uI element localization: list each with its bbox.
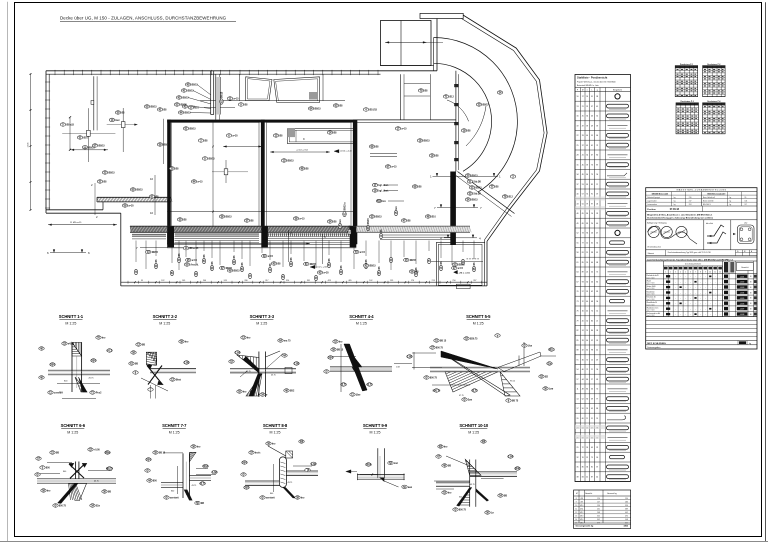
stair parallelogram 1 [246,77,272,101]
svg-text:64: 64 [577,272,579,274]
svg-text:59: 59 [596,125,598,127]
svg-text:63: 63 [596,379,598,381]
plan bottom edge [121,281,487,283]
svg-text:65: 65 [586,350,588,352]
svg-text:22: 22 [577,135,579,137]
svg-text:194: 194 [597,505,600,507]
roof protrusion rectangle [381,21,432,66]
svg-text:Ø10/15: Ø10/15 [369,110,377,112]
svg-text:Beton C25/30: Beton C25/30 [703,199,713,202]
svg-text:15: 15 [586,252,588,254]
svg-text:Wandecke innen: Wandecke innen [647,308,659,310]
svg-text:+75 = -1.15: +75 = -1.15 [459,272,471,274]
svg-text:85: 85 [577,340,579,342]
svg-text:Stb.Ø8: Stb.Ø8 [473,181,481,184]
svg-text:Durchstanzbewehrung Typ SDX ge: Durchstanzbewehrung Typ SDX gem. abZ Z-1… [668,251,711,254]
svg-text:a=15: a=15 [299,219,305,221]
svg-text:33: 33 [582,135,584,137]
schnitt 2-2 detail [150,367,196,369]
svg-text:a=20: a=20 [323,273,329,275]
svg-text:29: 29 [582,125,584,127]
hatch band upper-left wall [97,196,171,198]
svg-text:Durchstanzelement: Durchstanzelement [685,263,702,266]
svg-text:106: 106 [745,200,748,202]
svg-text:79: 79 [591,174,593,176]
svg-text:-0008: -0008 [740,314,745,316]
svg-text:200A: 200A [366,464,372,467]
svg-text:Bew.-Gehalt m3: Bew.-Gehalt m3 [703,196,715,199]
svg-text:800: 800 [459,497,462,499]
svg-text:Gewicht: Gewicht [741,266,749,269]
svg-text:13: 13 [577,106,579,108]
svg-text:94: 94 [596,174,598,176]
svg-text:20: 20 [586,262,588,264]
svg-text:97: 97 [582,291,584,293]
svg-text:442: 442 [625,512,628,514]
hatch band grey fill [130,226,356,232]
tags room2 [273,134,278,137]
svg-text:800 75: 800 75 [430,378,438,380]
svg-text:73: 73 [577,301,579,303]
svg-text:Verschiebeachse: Verschiebeachse [647,247,661,249]
room2 arrow dim [270,151,330,153]
svg-text:Durchstanz P-4: Durchstanz P-4 [707,100,720,103]
svg-text:217: 217 [689,200,692,202]
svg-text:34: 34 [577,174,579,176]
svg-text:213: 213 [432,280,435,282]
svg-text:-0004: -0004 [740,293,745,295]
svg-text:Biegeform: Biegeform [613,89,622,91]
schnitt 9-9 detail [377,448,379,478]
svg-text:+2.44 +2.64: +2.44 +2.64 [296,150,308,152]
short hline upper rooms [204,107,235,109]
svg-text:169: 169 [182,280,185,282]
svg-text:10: 10 [577,96,579,98]
svg-text:kro: kro [185,342,189,344]
svg-text:61: 61 [582,203,584,205]
svg-text:102: 102 [369,280,372,282]
outer boundary right octagonal edge [463,15,547,241]
svg-text:Typ 7 / SDX: Typ 7 / SDX [647,310,655,312]
svg-text:210: 210 [689,197,692,199]
svg-text:M 1:25: M 1:25 [270,431,281,435]
svg-text:Ø: Ø [55,505,57,508]
svg-text:16: 16 [582,311,584,313]
svg-text:43.75: 43.75 [471,390,478,393]
big curved slab edge arc inner [434,63,492,171]
room inner edge lines [171,123,173,243]
title block position row [646,205,757,207]
svg-text:55: 55 [577,242,579,244]
svg-text:27: 27 [591,379,593,381]
svg-text:97: 97 [591,203,593,205]
svg-text:Lkø: Lkø [528,346,533,348]
svg-text:a=15: a=15 [233,99,239,101]
section marker 3 vertical [288,230,290,262]
schnitt 4-4 detail [330,366,392,368]
wall ticks top right section [239,70,241,75]
svg-text:80: 80 [596,155,598,157]
tags bottom rows additional [184,263,189,266]
svg-text:800 75: 800 75 [59,506,67,508]
svg-text:Ø8 15: Ø8 15 [337,350,344,352]
svg-text:Projekt: Wohnhaus - Decke über: Projekt: Wohnhaus - Decke über UG / B25 … [577,81,616,84]
svg-text:37: 37 [582,145,584,147]
window mullion ticks on wall x456 [454,84,458,87]
svg-text:45: 45 [591,408,593,410]
left rooms boundary hline pair [370,153,397,155]
svg-text:25: 25 [582,116,584,118]
svg-text:11 Ø8 a=15: 11 Ø8 a=15 [70,222,82,224]
svg-text:28: 28 [582,340,584,342]
svg-text:Datenangaben: Datenangaben [647,346,660,349]
svg-text:44: 44 [586,135,588,137]
svg-text:231: 231 [597,508,600,510]
svg-text:91: 91 [591,194,593,196]
svg-text:Ø12: Ø12 [449,97,454,99]
svg-text:a=15: a=15 [391,167,397,169]
svg-text:Ø8/15: Ø8/15 [150,107,157,109]
svg-text:Ø10: Ø10 [580,505,583,507]
svg-text:Betonstahl Ø8-Ø14 n. Liste: Betonstahl Ø8-Ø14 n. Liste [577,84,599,87]
room top inner hlines [172,121,260,123]
svg-text:Ø: Ø [464,399,466,402]
leader line x163 [162,119,164,164]
svg-text:Ø8 75: Ø8 75 [512,401,519,403]
svg-text:±0.00 =+2.44: ±0.00 =+2.44 [340,151,353,153]
svg-text:69: 69 [586,184,588,186]
svg-text:1.64: 1.64 [508,456,513,459]
svg-text:29: 29 [586,106,588,108]
schnitt 3-3 detail [258,352,260,398]
svg-text:95: 95 [745,197,747,199]
svg-text:Ø: Ø [37,474,39,477]
svg-text:kro: kro [396,205,398,209]
svg-text:50: 50 [591,272,593,274]
svg-text:Ø8: Ø8 [581,498,583,500]
svg-text:504: 504 [146,459,151,462]
svg-text:10: 10 [586,242,588,244]
inner diagonal wall to lower corner [458,172,515,214]
svg-text:kro: kro [272,444,276,446]
svg-text:10: 10 [575,505,577,507]
svg-text:91: 91 [577,359,579,361]
svg-text:68: 68 [596,262,598,264]
svg-text:49: 49 [591,125,593,127]
svg-text:32: 32 [582,350,584,352]
svg-text:43.75: 43.75 [340,384,347,387]
svg-text:11: 11 [575,508,577,510]
svg-text:M 1:25: M 1:25 [67,431,78,435]
svg-text:Ø8/20: Ø8/20 [180,105,187,107]
svg-text:M 1:25: M 1:25 [159,322,170,326]
svg-text:-0006: -0006 [740,303,745,305]
svg-text:30: 30 [586,281,588,283]
svg-text:a=15: a=15 [458,268,464,270]
plan outer wall top edge [46,70,437,72]
svg-text:76: 76 [577,311,579,313]
svg-text:Ø8 a15: Ø8 a15 [66,125,74,127]
left outside vertical dim [30,74,32,210]
schnitt 8-8 tags [249,451,254,454]
svg-text:kg: kg [749,343,751,345]
central rooms thick walls [167,120,356,123]
bottom tab rectangle [456,284,470,288]
wall ticks top [54,70,56,75]
svg-text:Durchstanz P-2: Durchstanz P-2 [707,63,720,66]
svg-text:54: 54 [596,242,598,244]
title block footer rows [646,340,757,342]
big grid black title bar [646,256,757,258]
band bottom line [167,243,356,245]
svg-text:Ø8/15: Ø8/15 [410,260,417,262]
svg-text:+0.2: +0.2 [107,350,113,353]
svg-text:89: 89 [596,291,598,293]
lower-left dimension line [48,224,117,226]
svg-text:¯Ø: ¯Ø [305,469,309,472]
svg-text:66: 66 [596,135,598,137]
svg-text:Typ 1 / SDX: Typ 1 / SDX [647,277,655,279]
svg-text:Durchstanz P-3: Durchstanz P-3 [681,100,694,103]
column axis cross 3 [225,160,227,183]
svg-text:43.75: 43.75 [271,375,276,377]
wall end caps through band [167,226,174,247]
svg-text:26: 26 [586,447,588,449]
svg-text:a=15: a=15 [360,252,366,254]
svg-text:12: 12 [582,301,584,303]
svg-text:20: 20 [582,320,584,322]
svg-text:Ø8/20: Ø8/20 [88,147,95,149]
svg-text:Pos2: Pos2 [96,393,102,395]
svg-text:Decke über UG, M 150 - ZULAGEN: Decke über UG, M 150 - ZULAGEN, ANSCHLUS… [60,16,227,21]
svg-text:kro: kro [340,218,342,222]
svg-text:B500 Betonstabstahl: B500 Betonstabstahl [708,192,726,195]
svg-text:230: 230 [625,498,628,500]
svg-text:72: 72 [582,447,584,449]
svg-text:97: 97 [577,379,579,381]
svg-text:24: 24 [586,96,588,98]
svg-text:M 1:25: M 1:25 [473,322,484,326]
svg-text:kro: kro [448,493,452,495]
svg-text:33: 33 [591,389,593,391]
svg-text:Typ 2 / SDX: Typ 2 / SDX [647,283,655,285]
svg-text:Ø9: Ø9 [581,501,583,503]
svg-text:61: 61 [591,145,593,147]
svg-text:89: 89 [582,272,584,274]
hatch band room1 segment [167,225,264,227]
svg-text:73: 73 [582,233,584,235]
svg-text:21: 21 [582,106,584,108]
svg-text:77: 77 [582,242,584,244]
svg-text:aøø: aøø [408,487,413,489]
svg-text:243: 243 [224,280,227,282]
svg-text:52: 52 [596,116,598,118]
svg-text:M 1:25: M 1:25 [370,431,381,435]
svg-text:-0005: -0005 [740,298,745,300]
tags between rooms and band [177,218,182,221]
svg-text:176: 176 [411,280,414,282]
svg-text:12.45: 12.45 [28,142,30,148]
line above hatch band [167,211,356,213]
summary table below [574,490,631,529]
svg-text:800 75: 800 75 [459,510,467,512]
svg-text:14: 14 [596,311,598,313]
svg-text:87: 87 [596,164,598,166]
vertical tag right of partition [220,91,224,104]
svg-text:52: 52 [577,233,579,235]
column axis cross 1 [62,132,115,134]
svg-text:Ø13: Ø13 [580,516,583,518]
svg-text:44: 44 [596,476,598,478]
svg-text:a=20: a=20 [232,136,238,138]
svg-text:59: 59 [586,164,588,166]
column axis cross 2 [107,124,138,126]
svg-text:56: 56 [596,369,598,371]
upper rooms partition walls [215,74,217,119]
svg-text:Gesamt kg: Gesamt kg [607,492,617,495]
svg-text:800 75: 800 75 [433,390,441,393]
svg-text:Ø8/15: Ø8/15 [310,264,317,266]
svg-text:26: 26 [591,233,593,235]
svg-text:200A: 200A [203,465,209,468]
svg-text:07.06.18: 07.06.18 [670,208,680,211]
svg-text:224: 224 [689,204,692,206]
svg-text:BSt 500 S: BSt 500 S [703,203,711,206]
svg-text:85: 85 [582,262,584,264]
svg-text:23: 23 [596,447,598,449]
svg-text:Ø8/15: Ø8/15 [375,217,382,219]
lower right notch rooms [435,242,437,286]
rebar lines short left stub [132,234,166,236]
svg-text:53: 53 [582,184,584,186]
arc segment short [447,100,469,121]
svg-text:43: 43 [591,116,593,118]
svg-text:SCHNITT 7-7: SCHNITT 7-7 [162,423,187,428]
svg-text:120: 120 [597,498,600,500]
svg-text:Anschl.: Anschl. [190,264,199,267]
svg-text:250: 250 [452,280,455,282]
svg-text:38: 38 [591,252,593,254]
svg-text:17: 17 [577,408,579,410]
svg-text:43.75: 43.75 [94,481,99,483]
tags upper mid [227,97,232,100]
title block header title [646,191,757,193]
svg-text:14: 14 [575,519,577,521]
level arrow room2 [334,150,339,153]
svg-text:504: 504 [50,364,55,367]
upper-left wall stub x94 [93,76,95,130]
svg-text:80: 80 [591,320,593,322]
svg-text:-0002: -0002 [740,282,745,284]
hatch band right lighter segment [356,225,470,227]
bar schedule rows [575,100,631,102]
stair parallelogram 2 [274,77,320,103]
upper room extra partitions [238,74,240,101]
rebar lines zone below band room2 [267,233,351,235]
svg-text:75: 75 [591,457,593,459]
svg-text:1.68: 1.68 [311,463,316,466]
protrusion dimension arrow [385,41,427,43]
svg-text:82: 82 [577,330,579,332]
svg-text:88: 88 [577,350,579,352]
vertical tag stack near right room wall [343,202,347,217]
sheet edge lines [7,2,9,541]
svg-text:56: 56 [591,281,593,283]
svg-text:30: 30 [596,457,598,459]
svg-text:16: 16 [577,116,579,118]
svg-text:79: 79 [586,203,588,205]
svg-text:85: 85 [586,389,588,391]
tags left area [60,123,65,126]
plan lower-left wall edge [46,209,103,211]
svg-text:Ø: Ø [262,497,264,500]
wall ticks left [45,81,50,83]
svg-text:84: 84 [596,408,598,410]
svg-text:47.75: 47.75 [459,395,464,397]
svg-text:Ø: Ø [524,345,526,348]
svg-text:Wand: Wand [647,281,651,283]
svg-text:M 1:25: M 1:25 [256,322,267,326]
svg-text:Ø8/15: Ø8/15 [471,200,478,202]
svg-text:37: 37 [596,467,598,469]
svg-text:80: 80 [586,379,588,381]
svg-text:12: 12 [596,184,598,186]
svg-text:49: 49 [586,145,588,147]
svg-text:mst: mst [394,462,398,465]
tag row below band mostly vertical tags [134,269,138,274]
svg-text:SCHNITT 4-4: SCHNITT 4-4 [349,314,374,319]
svg-text:41: 41 [582,155,584,157]
svg-text:Ø8/15: Ø8/15 [423,141,430,143]
svg-text:45: 45 [586,311,588,313]
svg-text:SCHNITT 10-10: SCHNITT 10-10 [459,423,488,428]
svg-text:Element: Element [648,252,655,255]
svg-text:94: 94 [586,233,588,235]
plan outer wall left edge [45,71,47,213]
room2 balcony rectangle [288,129,357,144]
svg-text:38: 38 [596,96,598,98]
svg-text:Auflagerung / Verlegung: Auflagerung / Verlegung [647,221,666,224]
svg-text:M 1:25: M 1:25 [65,322,76,326]
svg-text:74: 74 [586,194,588,196]
section marker 7 left room [140,247,168,249]
svg-text:Ø26.75: Ø26.75 [470,339,478,341]
room interior dim line horizontal [223,146,262,148]
svg-text:Ø8 15: Ø8 15 [440,341,447,343]
section cut marker 1-1 [433,175,499,177]
svg-text:Typ 4 / SDX: Typ 4 / SDX [647,294,655,296]
svg-text:Ø8/15: Ø8/15 [152,252,159,254]
svg-text:84: 84 [582,476,584,478]
svg-text:11: 11 [577,389,579,391]
svg-text:a=15: a=15 [192,260,198,262]
svg-text:a=15: a=15 [268,256,274,258]
svg-text:Ø10: Ø10 [194,108,199,110]
svg-text:10: 10 [150,177,154,181]
svg-text:87: 87 [591,476,593,478]
svg-text:Ø8/15: Ø8/15 [287,161,294,163]
svg-text:1.68: 1.68 [184,362,189,365]
svg-text:62: 62 [591,291,593,293]
svg-text:52ø: 52ø [96,506,101,508]
svg-text:43.75: 43.75 [192,485,197,487]
svg-text:31: 31 [577,164,579,166]
svg-text:31: 31 [591,96,593,98]
sub row below diagrams [646,255,757,257]
svg-text:≥3,0: ≥3,0 [744,221,747,224]
svg-text:kg: kg [730,197,732,199]
svg-text:13: 13 [575,516,577,518]
